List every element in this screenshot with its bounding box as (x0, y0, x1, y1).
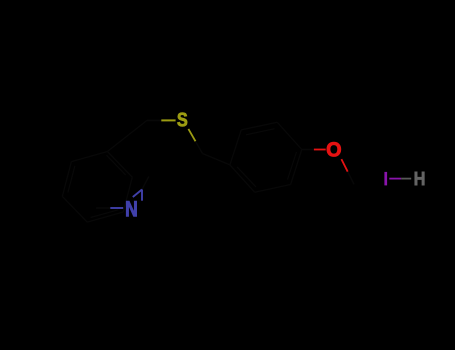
atom label H (415, 172, 424, 185)
bond C2-aryl wire (203, 154, 230, 165)
methoxyphenyl ring edge 6 (230, 165, 255, 192)
phenyl ring edge V5-V0 (123, 177, 132, 212)
bond S-C2 gray half (196, 141, 203, 153)
atom label S (177, 113, 187, 127)
phenyl inner double line V0-V1 (107, 155, 126, 175)
phenyl inner double line V4-V5 (91, 210, 119, 218)
bond aryl-O red half (314, 149, 326, 151)
methoxyphenyl inner double line a (246, 129, 275, 135)
methoxyphenyl ring edge 1 (230, 130, 241, 165)
methoxyphenyl ring edge 3 (277, 122, 302, 149)
atom label O (327, 142, 341, 156)
bond to N gray half (96, 207, 110, 209)
bond C0-S yellow half (161, 119, 175, 121)
bond C0-S gray half (147, 119, 162, 121)
methoxyphenyl ring edge 5 (255, 185, 291, 193)
inner double line N=C1 blue diagonal (133, 190, 142, 198)
phenyl ring edge V4-V5 (87, 212, 123, 222)
phenyl ring edge V1-V2 (71, 152, 107, 162)
atom label I (vertical bar) (384, 172, 387, 186)
phenyl ring edge V2-V3 (62, 162, 71, 197)
bond O-CH3 gray half (348, 172, 354, 185)
bond O-CH3 red half (341, 159, 347, 172)
methoxyphenyl inner double line b (288, 152, 297, 180)
methoxyphenyl inner double line c (237, 167, 256, 187)
bond to N blue half (110, 207, 123, 209)
phenyl inner double line V2-V3 (68, 166, 75, 193)
phenyl ring edge V0-V1 (107, 152, 132, 178)
bond I-H gray half (401, 178, 411, 180)
bond S-C2 yellow half (188, 129, 195, 141)
bond N-C1 gray half (142, 177, 149, 190)
methoxyphenyl ring edge 4 (291, 150, 302, 185)
phenyl ring edge V3-V4 (62, 196, 87, 222)
atom label N (126, 201, 136, 216)
bond aryl-O gray half (302, 149, 314, 151)
methoxyphenyl ring edge 2 (241, 122, 277, 130)
bond N-C1 blue half (vertical stroke) (141, 189, 143, 200)
bond C3-C0 wire (107, 120, 147, 151)
bond I-H purple half (389, 178, 401, 180)
